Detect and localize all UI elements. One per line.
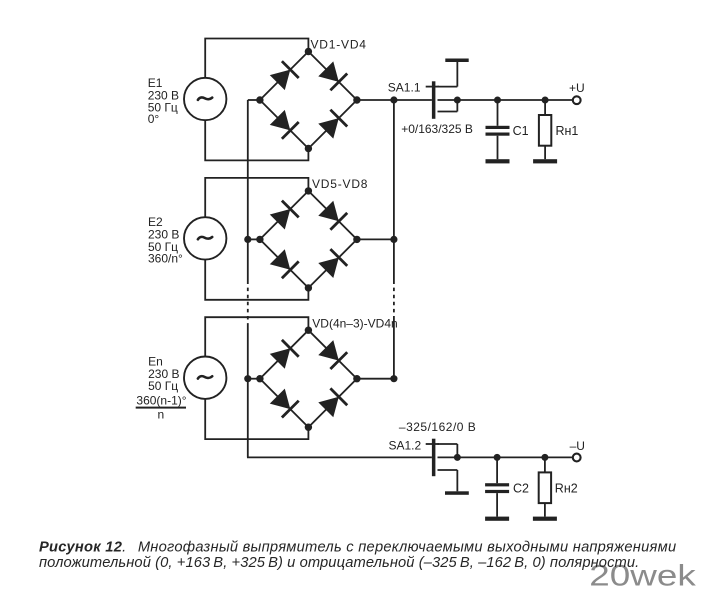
svg-text:C2: C2 xyxy=(513,482,529,496)
ground bar under Rn1 xyxy=(533,159,557,163)
terminal +U xyxy=(573,96,581,104)
switch SA1.1 top fixed contact to ground bar xyxy=(438,86,458,88)
resistor Rn2 xyxy=(539,457,551,516)
junction: minus bus / bridge3 left xyxy=(244,375,251,382)
svg-text:VD(4n–3)-VD4n: VD(4n–3)-VD4n xyxy=(312,316,397,330)
node: bridge top (AC) xyxy=(305,327,312,334)
wire: section 3 top rail xyxy=(205,317,308,356)
wire: bridge 2 left stub to minus bus xyxy=(248,238,260,240)
junction: C2 top xyxy=(494,454,501,461)
resistor Rn1 xyxy=(539,100,551,159)
wire: minus bus solid lower xyxy=(247,326,249,457)
svg-text:n: n xyxy=(157,408,164,422)
switch SA1.1 position tick xyxy=(426,86,439,88)
wire: section 3 bottom rail xyxy=(205,399,308,439)
watermark 20wek xyxy=(589,560,696,593)
switch SA1.1 wiper bar xyxy=(432,81,436,119)
wire: section 2 top rail xyxy=(205,178,308,217)
junction: Rn1 top xyxy=(542,97,549,104)
node: bridge left (minus) xyxy=(256,96,263,103)
capacitor C1 xyxy=(486,100,510,159)
diode En-bridge-D3 xyxy=(317,339,348,370)
junction: minus bus / bridge2 left xyxy=(244,236,251,243)
diode En-bridge-D2 xyxy=(269,388,300,419)
ground bar under C1 xyxy=(486,159,510,163)
diode En-bridge-D1 xyxy=(269,339,300,370)
wire: plus bus solid upper xyxy=(393,100,395,281)
node: bridge bottom (AC) xyxy=(305,145,312,152)
node: bridge left (minus) xyxy=(256,236,263,243)
svg-text:SA1.2: SA1.2 xyxy=(389,439,422,453)
wire: bridge1 right to SA1.1 xyxy=(394,99,432,101)
wire: bridge 3 left stub to minus bus xyxy=(248,378,260,380)
switch SA1.2 wiper bar xyxy=(432,439,436,477)
wire: SA1.1 output to +U xyxy=(438,99,573,101)
junction: SA1.1 output xyxy=(454,97,461,104)
diode E1-bridge-D1 xyxy=(269,60,300,91)
svg-text:0°: 0° xyxy=(148,112,160,126)
svg-text:+0/163/325 В: +0/163/325 В xyxy=(401,122,473,136)
svg-text:C1: C1 xyxy=(513,124,529,138)
wire: minus bus dashed middle xyxy=(247,281,249,327)
ground bar under Rn2 xyxy=(533,517,557,521)
svg-text:50 Гц: 50 Гц xyxy=(148,379,178,393)
diode E2-bridge-D3 xyxy=(317,200,348,231)
diode E1-bridge-D2 xyxy=(269,109,300,140)
svg-text:–325/162/0 В: –325/162/0 В xyxy=(399,420,476,434)
junction: Rn2 top xyxy=(541,454,548,461)
node: bridge right (plus) xyxy=(353,96,360,103)
node: bridge left (minus) xyxy=(256,375,263,382)
label En phase fraction bar xyxy=(136,407,186,409)
ground bar above SA1.1 xyxy=(445,59,468,63)
svg-text:VD1-VD4: VD1-VD4 xyxy=(311,38,367,52)
switch SA1.2 position tick xyxy=(426,443,439,445)
node: bridge right (plus) xyxy=(353,236,360,243)
wire: minus bus to SA1.2 xyxy=(247,456,432,458)
capacitor C2 xyxy=(485,457,509,516)
wire: bridge diamond arms (E1-bridge) xyxy=(260,52,357,149)
svg-text:Rн1: Rн1 xyxy=(556,124,579,138)
wire: section 1 bottom rail xyxy=(205,120,308,160)
terminal -U xyxy=(573,454,581,462)
wire: section 1 top rail xyxy=(205,39,308,78)
wire: minus bus solid upper xyxy=(247,100,249,281)
AC source E1 xyxy=(184,78,226,120)
wire: bridge diamond arms (E2-bridge) xyxy=(260,191,357,288)
AC source En xyxy=(184,357,226,399)
wire: bridge diamond arms (En-bridge) xyxy=(260,330,357,427)
wire: bridge 3 right stub to plus bus xyxy=(357,378,394,380)
ground bar under C2 xyxy=(485,517,509,521)
junction: plus bus / bridge2 right xyxy=(390,236,397,243)
wire: bridge 1 right stub to plus bus xyxy=(357,99,394,101)
node: bridge bottom (AC) xyxy=(305,424,312,431)
diode E1-bridge-D3 xyxy=(317,60,348,91)
node: bridge right (plus) xyxy=(353,375,360,382)
wire: SA1.2 output to -U xyxy=(438,456,573,458)
wire: section 2 bottom rail xyxy=(205,260,308,300)
svg-text:+U: +U xyxy=(569,81,585,95)
junction: C1 top xyxy=(494,97,501,104)
switch SA1.1 bottom fixed contact xyxy=(438,111,458,113)
svg-text:SA1.1: SA1.1 xyxy=(388,80,421,94)
svg-text:360(n-1)°: 360(n-1)° xyxy=(136,393,186,407)
wire: bridge 2 right stub to plus bus xyxy=(357,238,394,240)
junction: SA1.2 output xyxy=(454,454,461,461)
svg-text:Rн2: Rн2 xyxy=(555,482,578,496)
node: bridge top (AC) xyxy=(305,48,312,55)
diode E2-bridge-D2 xyxy=(269,248,300,279)
ground bar below SA1.2 xyxy=(445,491,469,495)
switch SA1.2 top fixed contact xyxy=(438,443,458,445)
junction: plus bus / bridge3 right xyxy=(390,375,397,382)
node: bridge top (AC) xyxy=(305,187,312,194)
switch SA1.2 bottom fixed contact to ground bar xyxy=(438,469,458,471)
junction: plus bus / bridge1 right wire xyxy=(390,96,397,103)
node: bridge bottom (AC) xyxy=(305,284,312,291)
wire: plus bus dashed middle xyxy=(393,281,395,320)
diode E1-bridge-D4 xyxy=(317,109,348,140)
diode E2-bridge-D4 xyxy=(317,248,348,279)
svg-text:Рисунок 12. Многофазный выпрям: Рисунок 12. Многофазный выпрямитель с пе… xyxy=(39,540,676,556)
svg-text:360/n°: 360/n° xyxy=(148,252,183,266)
diode E2-bridge-D1 xyxy=(269,200,300,231)
svg-text:положительной (0, +163 В, +325: положительной (0, +163 В, +325 В) и отри… xyxy=(39,555,639,571)
wire: bridge 1 left stub to minus bus xyxy=(248,99,260,101)
diode En-bridge-D4 xyxy=(317,387,348,418)
svg-text:–U: –U xyxy=(570,439,585,453)
svg-text:VD5-VD8: VD5-VD8 xyxy=(312,177,368,191)
wire: plus bus solid lower xyxy=(393,319,395,379)
AC source E2 xyxy=(184,217,226,259)
